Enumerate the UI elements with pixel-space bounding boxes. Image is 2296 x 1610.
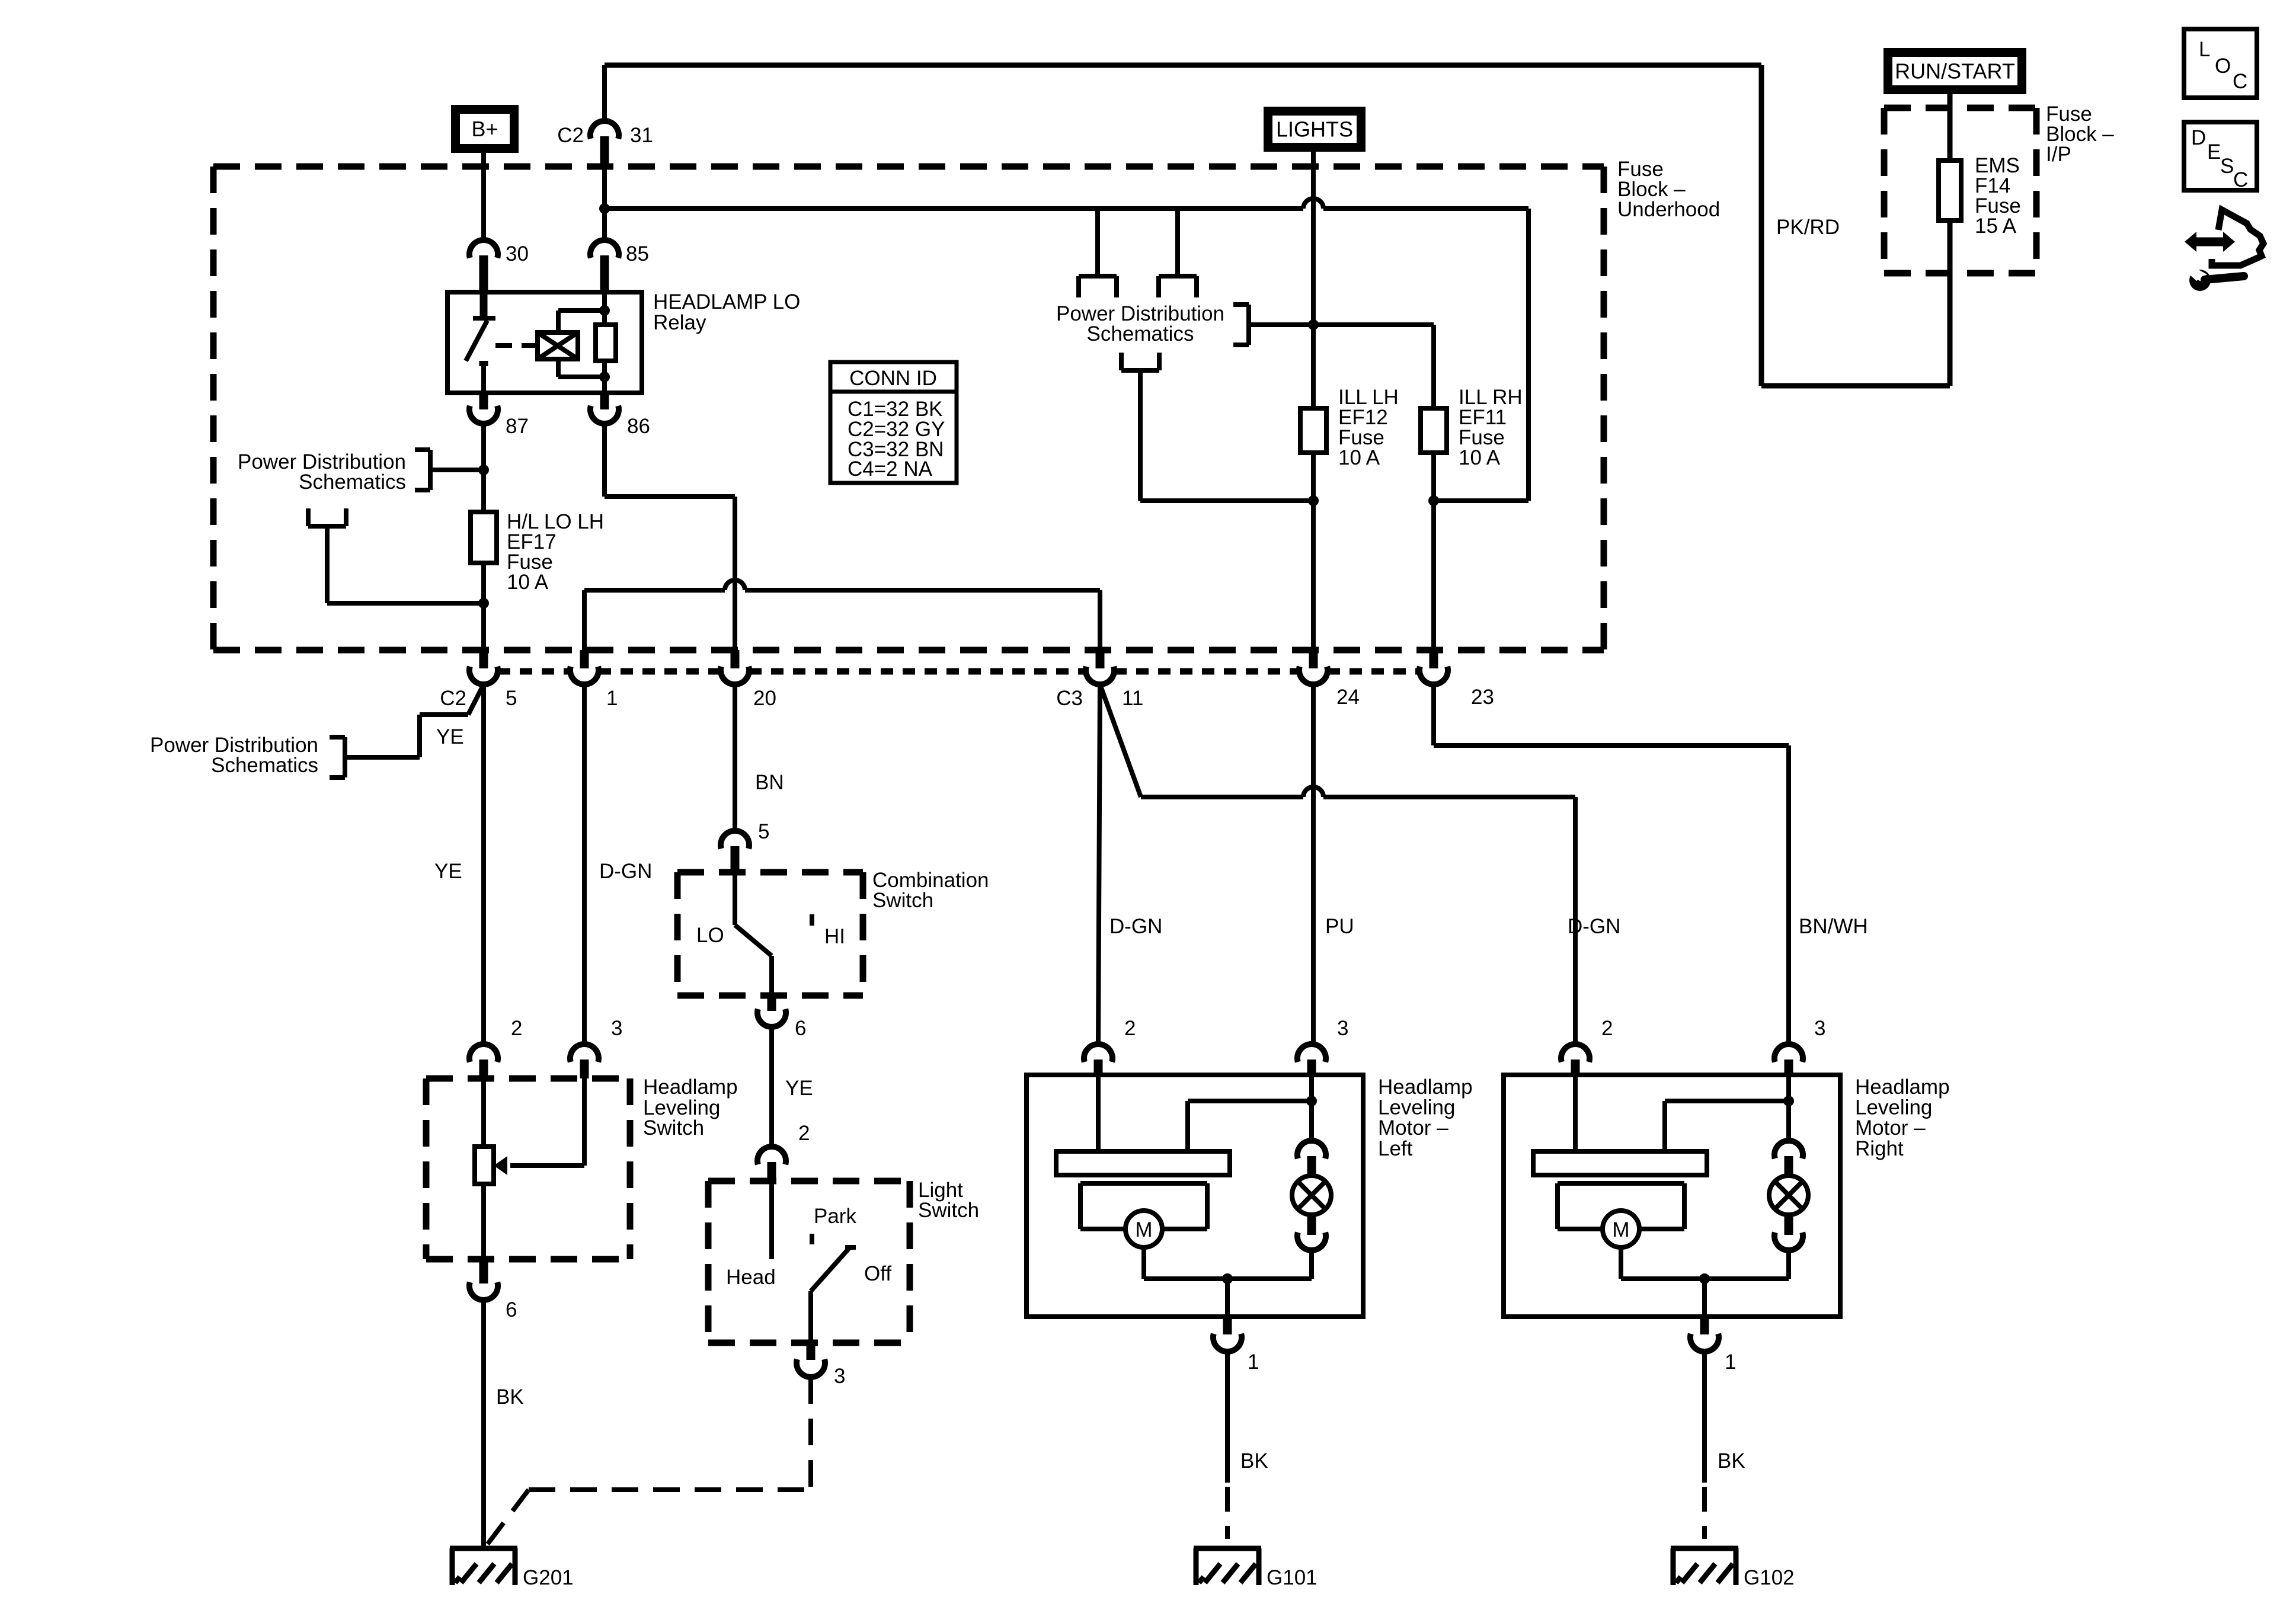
svg-text:Headlamp: Headlamp (1378, 1076, 1473, 1099)
svg-text:YE: YE (436, 725, 464, 748)
svg-text:Switch: Switch (643, 1116, 704, 1140)
svg-text:YE: YE (785, 1077, 813, 1100)
svg-text:Leveling: Leveling (1378, 1096, 1455, 1119)
svg-text:PK/RD: PK/RD (1776, 216, 1840, 239)
svg-text:G102: G102 (1744, 1566, 1795, 1589)
svg-text:Switch: Switch (872, 889, 933, 912)
svg-text:1: 1 (1725, 1350, 1736, 1374)
svg-text:5: 5 (506, 687, 517, 710)
svg-text:5: 5 (758, 820, 769, 843)
svg-text:1: 1 (606, 687, 618, 710)
svg-text:24: 24 (1336, 686, 1360, 709)
svg-text:C: C (2233, 70, 2247, 93)
svg-text:CONN ID: CONN ID (849, 367, 937, 390)
svg-text:M: M (1135, 1218, 1152, 1241)
svg-text:C3: C3 (1056, 687, 1083, 710)
svg-text:15 A: 15 A (1975, 215, 2017, 238)
svg-text:Leveling: Leveling (1855, 1096, 1932, 1119)
svg-text:M: M (1612, 1218, 1629, 1241)
svg-text:11: 11 (1122, 687, 1143, 710)
svg-text:10 A: 10 A (1459, 446, 1501, 469)
svg-text:HI: HI (824, 925, 845, 948)
svg-text:20: 20 (753, 687, 776, 710)
svg-text:G201: G201 (523, 1566, 574, 1589)
svg-text:23: 23 (1471, 686, 1494, 709)
svg-text:Headlamp: Headlamp (1855, 1076, 1950, 1099)
svg-text:HEADLAMP LO: HEADLAMP LO (653, 290, 800, 313)
svg-text:Relay: Relay (653, 311, 706, 334)
svg-text:BN: BN (755, 771, 784, 794)
svg-text:L: L (2199, 38, 2210, 61)
svg-text:3: 3 (1814, 1017, 1825, 1040)
svg-text:Schematics: Schematics (211, 754, 318, 777)
svg-text:B+: B+ (471, 117, 498, 141)
svg-text:Underhood: Underhood (1617, 198, 1720, 221)
svg-text:Park: Park (814, 1205, 856, 1228)
svg-text:6: 6 (795, 1017, 806, 1040)
svg-text:2: 2 (1601, 1017, 1613, 1040)
svg-text:D: D (2191, 126, 2206, 149)
svg-text:YE: YE (434, 860, 462, 883)
svg-text:6: 6 (506, 1298, 517, 1321)
svg-text:C2: C2 (557, 124, 584, 147)
svg-text:RUN/START: RUN/START (1895, 59, 2015, 84)
svg-text:PU: PU (1325, 915, 1354, 938)
svg-text:86: 86 (627, 415, 650, 438)
svg-text:S: S (2220, 155, 2234, 178)
svg-text:BN/WH: BN/WH (1799, 915, 1868, 938)
svg-text:2: 2 (1124, 1017, 1136, 1040)
svg-text:31: 31 (630, 124, 653, 147)
svg-text:Motor –: Motor – (1378, 1116, 1448, 1140)
svg-text:1: 1 (1248, 1350, 1259, 1374)
svg-text:E: E (2207, 140, 2221, 164)
svg-text:Left: Left (1378, 1137, 1413, 1160)
svg-text:I/P: I/P (2046, 143, 2071, 166)
svg-text:Off: Off (864, 1262, 891, 1285)
svg-text:85: 85 (626, 242, 649, 265)
svg-text:D-GN: D-GN (1568, 915, 1620, 938)
svg-text:C: C (2233, 168, 2248, 191)
svg-text:Switch: Switch (918, 1199, 979, 1222)
svg-text:30: 30 (506, 242, 529, 265)
svg-text:BK: BK (1240, 1449, 1268, 1473)
svg-text:Motor –: Motor – (1855, 1116, 1926, 1140)
svg-text:3: 3 (1337, 1017, 1348, 1040)
svg-text:BK: BK (496, 1385, 524, 1409)
svg-text:G101: G101 (1267, 1566, 1318, 1589)
svg-text:C2: C2 (440, 687, 466, 710)
svg-text:Right: Right (1855, 1137, 1904, 1160)
svg-text:Headlamp: Headlamp (643, 1076, 738, 1099)
svg-text:Schematics: Schematics (299, 470, 406, 494)
svg-text:Head: Head (726, 1266, 776, 1289)
svg-text:87: 87 (506, 415, 529, 438)
svg-text:Schematics: Schematics (1087, 322, 1194, 345)
svg-text:2: 2 (798, 1122, 810, 1145)
svg-text:10 A: 10 A (507, 571, 549, 594)
svg-text:2: 2 (511, 1017, 522, 1040)
svg-text:C4=2 NA: C4=2 NA (848, 457, 933, 481)
svg-text:D-GN: D-GN (599, 860, 652, 883)
svg-text:3: 3 (611, 1017, 622, 1040)
svg-text:3: 3 (834, 1365, 845, 1388)
svg-text:O: O (2215, 55, 2231, 78)
svg-text:10 A: 10 A (1338, 446, 1380, 469)
svg-text:D-GN: D-GN (1109, 915, 1162, 938)
svg-text:LIGHTS: LIGHTS (1276, 117, 1353, 142)
svg-text:BK: BK (1718, 1449, 1745, 1473)
svg-text:LO: LO (696, 924, 724, 947)
